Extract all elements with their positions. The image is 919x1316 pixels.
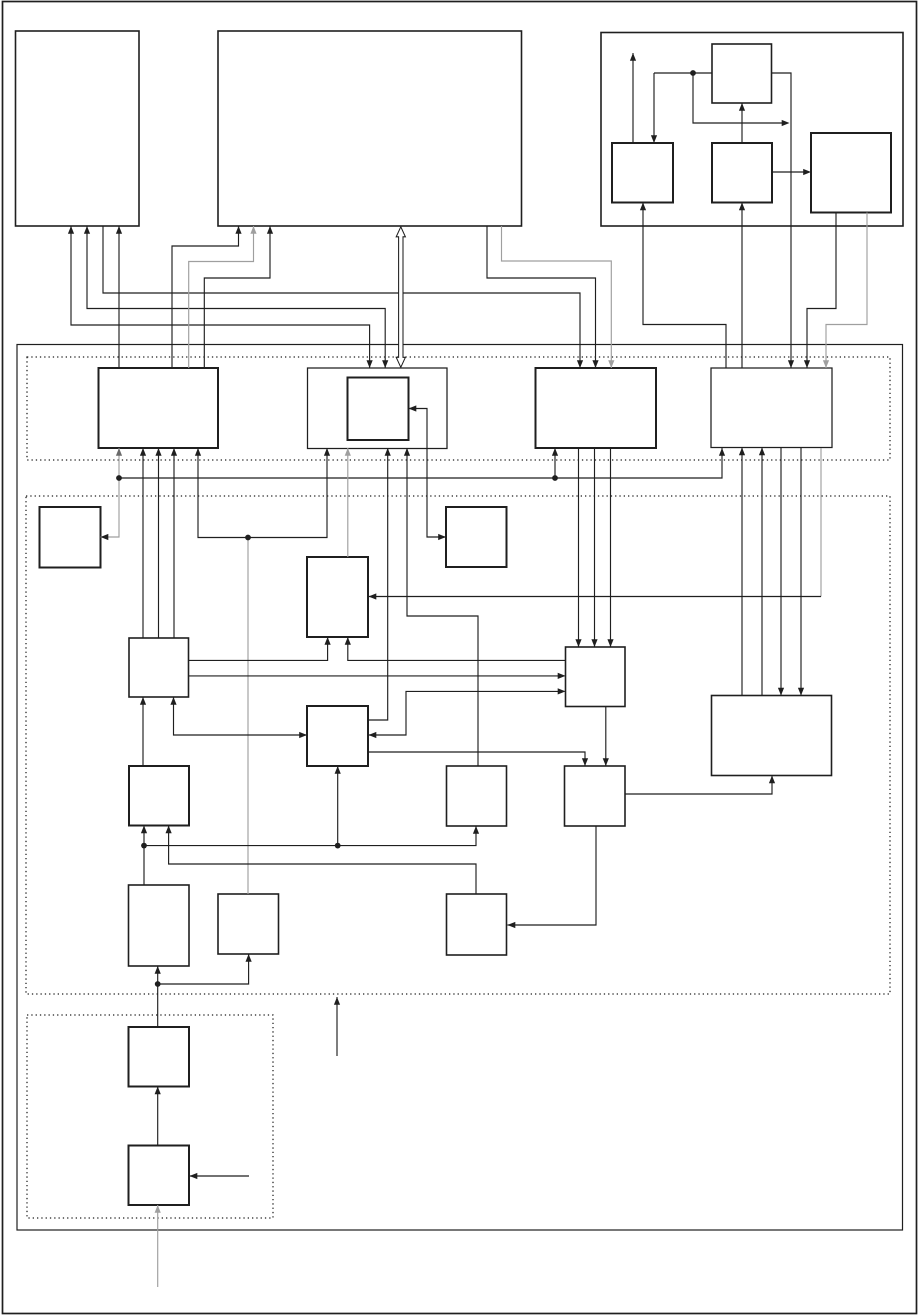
wire box BLL to left box LB — [140, 697, 146, 766]
wire T1 net tap to box C8 — [158, 954, 252, 984]
wire container node down into left box — [651, 73, 657, 143]
box BLL2 — [129, 885, 190, 966]
wire box C5 output to box C7 — [603, 707, 609, 767]
dotted region: input stage — [27, 1015, 273, 1218]
wire box R2A to box B2 link 1 — [172, 226, 242, 368]
wire box C9 to box BLL — [166, 826, 477, 895]
wire box BLL2 net vertical — [141, 826, 147, 886]
box R2B inner — [348, 378, 409, 441]
wire box R2A to box B2 link 2 (gray) — [189, 226, 257, 368]
box R2A (row2 first) — [99, 368, 219, 448]
wire container small box to box R2D — [772, 73, 795, 368]
box T2 — [129, 1146, 190, 1206]
box B1 (top-left) — [16, 31, 140, 226]
wire box B2M / box C5 link — [369, 688, 566, 738]
wire box R2D to container middle box — [739, 203, 745, 369]
dotted region: interface row — [27, 357, 890, 460]
wire box B1 output to box R2C — [103, 226, 583, 368]
wire box B1 / box R2B link 1 — [68, 226, 373, 368]
box BLL — [129, 766, 189, 826]
wire middle box MB to box R2B (gray) — [345, 448, 351, 557]
junction dot C8 net — [245, 535, 251, 541]
wire box B2 output to box R2C link 1 — [487, 226, 599, 368]
wire container left box free output — [630, 53, 636, 143]
wire box BRB to box R2D line 2 — [759, 448, 765, 696]
wire box BLL2 net horizontal — [144, 826, 479, 846]
wire box R2D output to middle box MB (gray vertical) — [820, 448, 822, 597]
container small box CTS — [712, 44, 772, 103]
wire box R2C output to box C5 line 3 — [607, 448, 613, 647]
wire box B2M output to box C7 — [368, 752, 588, 766]
box C8 — [218, 894, 279, 954]
dotted region: processing core — [26, 496, 890, 994]
small box SB1 — [40, 507, 101, 568]
container box CT (top-right) — [601, 33, 903, 227]
left box LB — [129, 638, 189, 697]
wire container node to vertical bus — [693, 73, 790, 126]
box B2M — [307, 706, 368, 766]
wire left box LB to box R2A line 2 — [155, 448, 161, 638]
junction dot BLL2 net left — [141, 843, 147, 849]
wire external input to box T2 (gray) — [155, 1205, 161, 1287]
wire box R2D to container left box — [640, 203, 726, 369]
wire box R2D output to box BRB line 1 — [778, 448, 784, 696]
hollow double-headed arrow between box B2 and box R2B — [396, 227, 405, 367]
wire input stub into box T2 — [190, 1173, 250, 1179]
container left box CTL — [612, 143, 673, 203]
wire box B1 / box R2B link 2 — [84, 226, 388, 368]
box T1 — [129, 1027, 190, 1087]
wire box BRB to box R2D line 1 — [739, 448, 745, 696]
small box SB2 — [446, 507, 507, 567]
wire box R2A to box B1 (straight) — [116, 226, 122, 368]
wire box R2C output to box C5 line 1 — [575, 448, 581, 647]
wire left box LB / box B2M link — [170, 697, 307, 738]
wire box B2M to box R2B — [368, 448, 391, 720]
box B2 (top-middle) — [218, 31, 522, 226]
box R2C (row2 third) — [536, 368, 657, 448]
wire box C5 to middle box MB — [345, 637, 566, 660]
box C9 — [447, 894, 507, 955]
wire box T2 to box T1 — [155, 1087, 161, 1146]
wire box R2C output to box C5 line 2 — [591, 448, 597, 647]
container middle box CTM — [712, 143, 772, 203]
wire left box LB to box R2A line 1 — [140, 448, 146, 638]
wire box C7 output to box BRB — [625, 776, 775, 795]
wire shared bus net horizontal — [119, 448, 725, 478]
box C5 — [566, 647, 626, 707]
box R2B (row2 second, outer) — [308, 368, 448, 449]
junction dot bus under R2C — [552, 475, 558, 481]
wire C8 net to box R2A — [195, 448, 248, 538]
wire container node to small box — [654, 72, 712, 74]
junction dot container node — [690, 70, 696, 76]
junction dot bus left — [116, 475, 122, 481]
box C6 — [447, 766, 507, 826]
box BRB (big right) — [712, 696, 832, 776]
wire box BLL2 net tap to box B2M — [335, 766, 341, 846]
wire box B2 output to box R2C link 2 (gray) — [502, 226, 615, 368]
wire free input arrow into core region — [334, 997, 340, 1056]
container right box CTR — [811, 133, 891, 213]
middle box MB — [307, 557, 368, 637]
wire left box LB to middle box MB — [189, 637, 331, 660]
wire container right box to box R2D link 1 — [804, 213, 836, 369]
wire box R2D output to middle box MB (horizontal) — [369, 593, 822, 599]
junction dot T1 net — [155, 981, 161, 987]
wire left box LB to box C5 — [189, 673, 566, 679]
wire inner box / small box SB2 link — [409, 405, 447, 540]
wire box R2A to box B2 link 3 — [204, 226, 273, 368]
wire C8 net to box R2B — [248, 448, 330, 538]
junction dot BLL2 net middle — [335, 843, 341, 849]
wire shared bus net vertical (gray) — [101, 448, 123, 540]
wire left box LB to box R2A line 3 — [171, 448, 177, 638]
wire container middle box to small box — [739, 103, 745, 143]
wire bus tap to box R2C — [552, 448, 558, 478]
box C7 — [565, 766, 626, 826]
wire container right box to box R2D link 2 (gray) — [823, 213, 867, 369]
box R2D (row2 fourth) — [711, 368, 832, 448]
wire container middle box to right box — [772, 169, 811, 175]
wire box R2D output to box BRB line 2 — [798, 448, 804, 696]
wire box C7 output to box C9 — [508, 826, 597, 928]
main system enclosure box — [17, 345, 903, 1231]
wire box C8 output vertical (gray) — [247, 538, 249, 895]
wire box T1 to box BLL2 — [155, 966, 161, 1027]
wire box C6 to box R2B — [404, 448, 478, 766]
